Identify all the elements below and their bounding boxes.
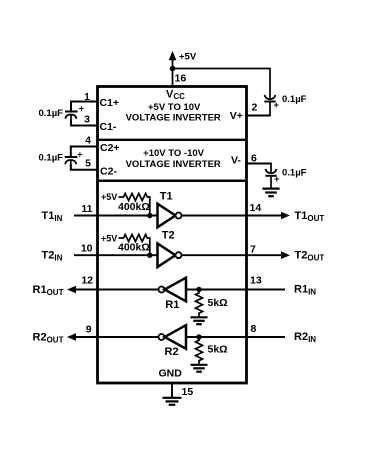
- ground symbol (R2 5k): [191, 365, 208, 372]
- svg-text:C1-: C1-: [100, 121, 117, 133]
- svg-text:R2: R2: [165, 346, 179, 358]
- arrowhead R2OUT: [67, 333, 76, 341]
- wire: pin 5 stub: [71, 165, 97, 170]
- wire: pin 4 stub: [71, 147, 97, 158]
- junction dot T2 input: [147, 253, 152, 258]
- svg-text:+: +: [77, 150, 82, 160]
- svg-text:8: 8: [251, 323, 257, 335]
- wire: pin 3 stub: [71, 120, 97, 126]
- svg-text:+10V TO -10V: +10V TO -10V: [143, 148, 204, 159]
- arrowhead T1OUT: [281, 212, 290, 220]
- capacitor C2 0.1uF: [65, 157, 78, 170]
- wire: pin 9 stub from R2 output: [75, 336, 159, 338]
- svg-text:16: 16: [175, 73, 187, 85]
- svg-text:C2+: C2+: [100, 142, 120, 154]
- capacitor C3 0.1uF (V+ bypass): [264, 95, 275, 116]
- receiver R2: [159, 325, 187, 349]
- svg-text:14: 14: [250, 202, 262, 214]
- wire: pin 10 stub into T2 input: [74, 254, 158, 256]
- svg-text:+5V: +5V: [101, 234, 117, 244]
- svg-text:5kΩ: 5kΩ: [208, 344, 228, 356]
- svg-text:0.1µF: 0.1µF: [39, 153, 64, 164]
- wire: T2 output to pin 7: [182, 254, 286, 256]
- svg-text:0.1µF: 0.1µF: [282, 168, 307, 179]
- wire: pin 15 stub: [171, 383, 173, 397]
- svg-text:15: 15: [182, 386, 194, 398]
- svg-text:11: 11: [81, 203, 92, 215]
- svg-text:12: 12: [81, 275, 93, 287]
- wire: pin 1 stub: [71, 102, 97, 112]
- arrowhead R1OUT: [67, 286, 76, 294]
- svg-text:400kΩ: 400kΩ: [118, 201, 150, 213]
- resistor 5k (R1): [196, 290, 203, 317]
- svg-text:+5V TO 10V: +5V TO 10V: [148, 102, 201, 113]
- ground symbol (V- bypass cap): [262, 189, 279, 197]
- svg-text:6: 6: [251, 153, 257, 165]
- junction dot R1 input: [196, 287, 201, 292]
- junction dot R2 input: [196, 334, 201, 339]
- svg-text:0.1µF: 0.1µF: [282, 94, 307, 105]
- svg-text:VOLTAGE INVERTER: VOLTAGE INVERTER: [126, 113, 221, 124]
- wire: R1 input from pin 13: [186, 289, 285, 291]
- wire: pin 6 stub: [245, 163, 272, 165]
- svg-text:5kΩ: 5kΩ: [208, 297, 228, 309]
- wire: pin 12 stub from R1 output: [75, 289, 159, 291]
- svg-text:0.1µF: 0.1µF: [39, 108, 64, 119]
- capacitor C1 0.1uF: [65, 112, 78, 126]
- label +5V TO 10V VOLTAGE INVERTER: [126, 102, 221, 124]
- svg-text:+5V: +5V: [101, 192, 117, 202]
- svg-text:VOLTAGE INVERTER: VOLTAGE INVERTER: [126, 159, 221, 170]
- wire: R2 input from pin 8: [186, 336, 285, 338]
- arrowhead T2OUT: [281, 251, 290, 259]
- svg-text:+: +: [79, 103, 84, 113]
- wire: pin 11 stub into T1 input: [74, 215, 158, 217]
- driver T1: [158, 204, 182, 228]
- svg-text:7: 7: [250, 244, 256, 256]
- svg-text:T1: T1: [160, 191, 173, 203]
- svg-text:GND: GND: [159, 368, 183, 380]
- svg-text:R1: R1: [165, 299, 179, 311]
- svg-text:+5V: +5V: [179, 52, 197, 63]
- svg-text:T2: T2: [162, 230, 175, 242]
- charge-pump section divider 2: [99, 179, 245, 182]
- svg-text:10: 10: [81, 243, 93, 255]
- svg-text:+: +: [274, 174, 279, 184]
- svg-text:5: 5: [85, 158, 91, 170]
- svg-text:400kΩ: 400kΩ: [118, 242, 150, 254]
- wire: pin 2 stub: [245, 115, 271, 117]
- svg-text:1: 1: [84, 91, 90, 103]
- resistor 400k (T1): [119, 194, 150, 216]
- wire: T1 output to pin 14: [182, 215, 286, 217]
- junction dot at pin 16 rail: [170, 66, 176, 72]
- label +10V TO -10V VOLTAGE INVERTER: [126, 148, 221, 170]
- ground symbol (R1 5k): [191, 317, 208, 324]
- svg-text:C1+: C1+: [100, 97, 120, 109]
- capacitor C4 0.1uF (V- bypass): [265, 164, 276, 188]
- svg-text:C2-: C2-: [100, 166, 117, 178]
- svg-text:13: 13: [250, 275, 262, 287]
- svg-text:V-: V-: [231, 155, 241, 167]
- svg-text:4: 4: [85, 135, 91, 147]
- charge-pump section divider 1: [99, 139, 245, 141]
- svg-text:9: 9: [86, 324, 92, 336]
- ground symbol (pin 15): [163, 398, 182, 405]
- svg-text:3: 3: [84, 114, 90, 126]
- svg-text:V+: V+: [230, 110, 243, 122]
- svg-text:2: 2: [252, 102, 258, 114]
- wire: +5V rail to V+ bypass cap: [173, 69, 271, 99]
- IC package outline U1: [98, 87, 247, 384]
- resistor 5k (R2): [196, 337, 203, 364]
- resistor 400k (T2): [119, 235, 150, 256]
- driver T2: [158, 243, 182, 267]
- +5V supply arrow: [169, 51, 177, 87]
- junction dot T1 input: [147, 213, 152, 218]
- receiver R1: [159, 278, 187, 302]
- svg-text:+: +: [274, 100, 279, 110]
